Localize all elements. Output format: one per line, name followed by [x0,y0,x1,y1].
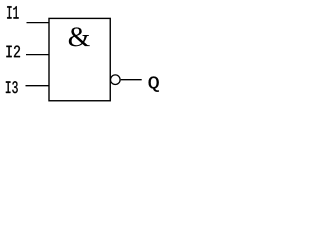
node I2 label [6,46,20,58]
node I3 label [6,81,18,93]
wire input 2 [26,54,49,56]
wire input 3 [26,85,50,87]
wire output [121,79,142,81]
node Q label [149,77,159,92]
and-gate U1 function label & [69,27,90,46]
inversion bubble [111,75,121,85]
and-gate U1 body [49,18,110,100]
wire input 1 [27,22,50,24]
node I1 label [7,6,18,18]
